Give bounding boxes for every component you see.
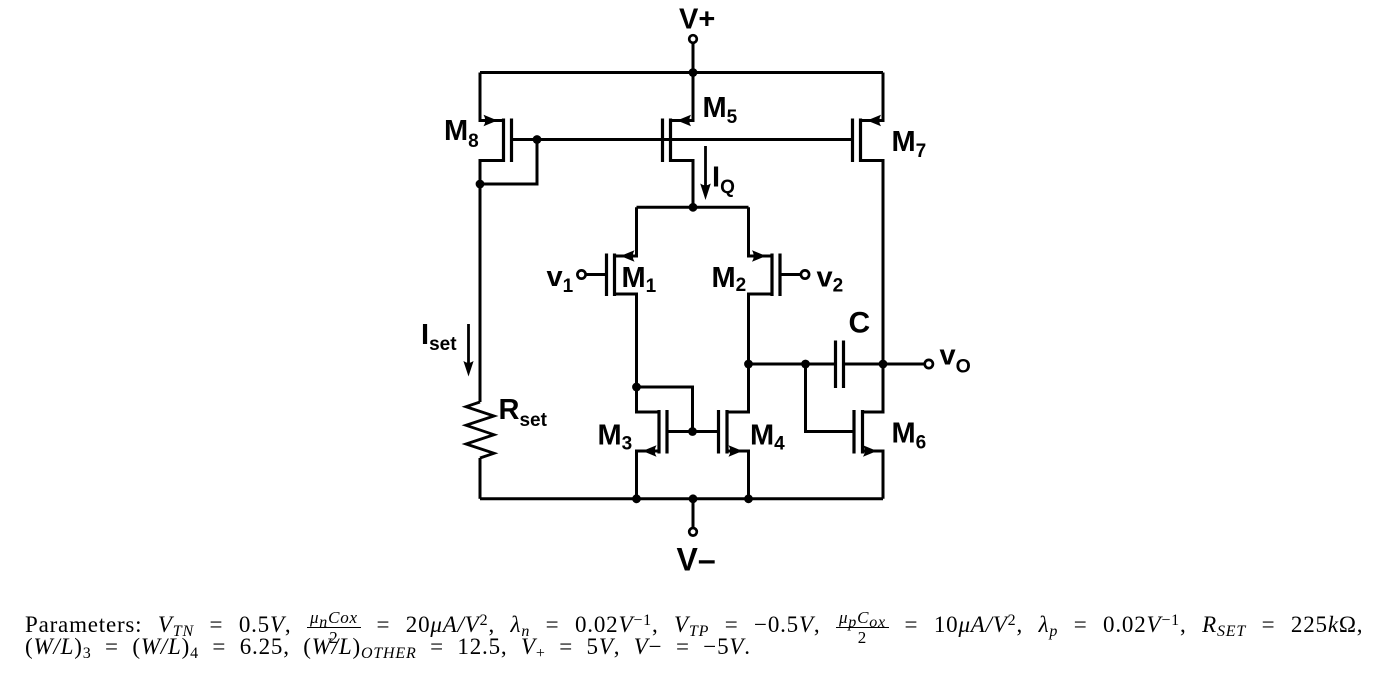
terminal vO: [925, 360, 933, 368]
transistor M8 channel bar: [502, 119, 505, 163]
junction dot M6 gate tap: [801, 360, 810, 369]
wire M5 drain lead: [672, 161, 693, 208]
junction dot V+ on top rail: [689, 68, 698, 77]
wire M4 drain lead: [729, 364, 749, 412]
wire V+ stem: [692, 44, 695, 73]
transistor M5 channel bar: [669, 119, 672, 163]
transistor M4 channel bar: [725, 410, 728, 454]
arrow M1 source (PMOS into channel, left): [621, 250, 635, 262]
transistor M1 gate bar: [605, 254, 608, 297]
wire M5 source lead: [672, 73, 693, 121]
resistor Rset zigzag: [466, 402, 494, 458]
junction dot M2 drain output node: [744, 360, 753, 369]
svg-text:M4: M4: [750, 420, 785, 455]
wire M3-M4 gate interconnect: [667, 430, 719, 433]
transistor M6 gate bar: [852, 410, 855, 454]
svg-text:C: C: [849, 307, 871, 340]
svg-text:IQ: IQ: [712, 162, 735, 199]
wire output node rail to capacitor: [749, 363, 835, 366]
capacitor C left plate: [834, 341, 837, 389]
wire M1 drain down to M3: [616, 294, 658, 412]
wire M2 gate lead to v2: [780, 273, 800, 276]
svg-text:M1: M1: [622, 262, 657, 297]
arrow M5 source (PMOS into channel, left): [677, 115, 691, 127]
junction dot bottom rail M3: [632, 494, 641, 503]
arrow Iset shaft: [467, 324, 470, 363]
terminal v2: [801, 270, 809, 278]
svg-text:vO: vO: [940, 339, 971, 377]
junction dot M7 drain output node: [879, 360, 888, 369]
wire M2 source lead: [749, 207, 771, 256]
transistor M7 gate bar: [851, 119, 854, 163]
wire M6 drain lead: [864, 364, 883, 412]
arrow IQ current: [700, 184, 711, 201]
transistor M2 channel bar: [770, 254, 773, 297]
arrow M6 source (NMOS out of channel, right): [863, 445, 877, 457]
wire bottom rail V-: [480, 497, 883, 500]
junction dot M8 drain node: [476, 180, 485, 189]
transistor M1 channel bar: [613, 254, 616, 297]
svg-text:Rset: Rset: [499, 394, 548, 431]
transistor M5 gate bar: [661, 119, 664, 163]
junction dot M8 gate rail: [533, 135, 542, 144]
arrow M8 source (PMOS into channel, right): [484, 115, 498, 127]
svg-text:V+: V+: [679, 4, 715, 36]
svg-text:v1: v1: [547, 261, 574, 297]
junction dot bottom rail M4: [744, 494, 753, 503]
wire M1 source lead: [616, 207, 637, 256]
wire M3 gate-drain link: [637, 387, 693, 432]
svg-text:V–: V–: [677, 542, 716, 578]
transistor M3 gate bar: [665, 410, 668, 454]
wire gate rail M8-M5-M7: [512, 138, 853, 141]
wire V- stem: [692, 499, 695, 528]
svg-text:M2: M2: [712, 262, 747, 296]
junction dot bottom rail V-: [689, 494, 698, 503]
svg-text:M5: M5: [703, 92, 738, 128]
wire M6 gate tap: [806, 364, 853, 432]
wire M8 source lead: [480, 73, 502, 121]
capacitor C right plate: [842, 341, 845, 389]
svg-text:M3: M3: [598, 420, 633, 455]
arrow M4 source (NMOS out of channel, right): [729, 445, 743, 457]
svg-text:M6: M6: [892, 418, 927, 454]
terminal v1: [577, 270, 585, 278]
arrow M2 source (PMOS into channel, right): [752, 250, 766, 262]
svg-text:M8: M8: [444, 115, 479, 152]
wire M7 drain to output node: [862, 161, 883, 365]
wire M8 drain lead: [480, 161, 502, 185]
transistor M8 gate bar: [510, 119, 513, 163]
transistor M7 channel bar: [859, 119, 862, 163]
terminal V-: [689, 528, 697, 536]
wire left rail to resistor: [479, 184, 482, 402]
svg-text:Iset: Iset: [421, 319, 457, 355]
junction dot IQ tail node: [689, 203, 698, 212]
wire resistor to bottom rail: [479, 458, 482, 499]
wire top rail V+: [480, 71, 883, 74]
transistor M3 channel bar: [657, 410, 660, 454]
arrow M3 source (NMOS out of channel, left): [643, 445, 657, 457]
wire M8 gate-drain link: [480, 140, 537, 185]
wire M4 source to bottom rail: [729, 451, 749, 499]
transistor M2 gate bar: [778, 254, 781, 297]
wire M7 source lead: [862, 73, 883, 121]
wire M3 source to bottom rail: [637, 451, 658, 499]
wire capacitor to vO terminal: [845, 363, 925, 366]
svg-text:v2: v2: [817, 262, 844, 297]
wire M1 gate lead to v1: [586, 273, 607, 276]
junction dot M3-M4 gate node: [688, 427, 697, 436]
wire M6 source to bottom rail: [864, 451, 883, 499]
terminal V+: [689, 35, 697, 43]
wire diff-pair source rail: [637, 206, 749, 209]
transistor M6 channel bar: [861, 410, 864, 454]
transistor M4 gate bar: [717, 410, 720, 454]
junction dot M3 drain node: [632, 383, 641, 392]
arrow IQ shaft: [704, 146, 707, 186]
svg-text:M7: M7: [892, 126, 927, 162]
arrow Iset current: [463, 361, 473, 377]
arrow M7 source (PMOS into channel, left): [867, 115, 881, 127]
wire M2 drain to output node: [749, 294, 771, 364]
